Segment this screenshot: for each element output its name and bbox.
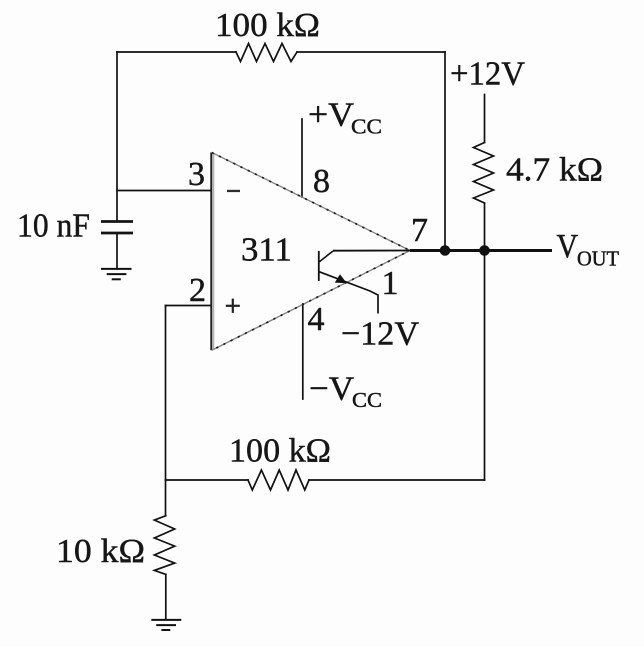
wire: bottom horizontal (right of R3) bbox=[309, 479, 485, 481]
node: junction dot at pull-up/output bbox=[479, 245, 490, 256]
wire: from R2 down to output node bbox=[484, 203, 486, 251]
wire: top horizontal (right of R1) bbox=[297, 51, 445, 53]
ground: under capacitor C1 bbox=[101, 269, 132, 279]
wire: bottom horizontal (left of R3) bbox=[166, 479, 249, 481]
svg-text:−12V: −12V bbox=[341, 316, 419, 353]
wire: right vertical from top wire down to output node bbox=[444, 52, 446, 251]
svg-text:OUT: OUT bbox=[577, 247, 619, 271]
svg-text:1: 1 bbox=[382, 265, 399, 302]
transistor Q1 emitter lead with arrow bbox=[319, 272, 378, 314]
svg-text:8: 8 bbox=[313, 163, 330, 200]
capacitor C1 10 nF plates bbox=[101, 222, 133, 234]
svg-text:2: 2 bbox=[189, 272, 206, 309]
svg-text:V: V bbox=[557, 228, 579, 265]
wire: pin 2 input wire bbox=[166, 305, 212, 307]
svg-text:100 kΩ: 100 kΩ bbox=[215, 7, 320, 44]
wire: pin 4 -Vcc stub bbox=[302, 304, 304, 399]
resistor R4 10 kOhm (vertical) zigzag bbox=[154, 516, 174, 575]
svg-text:4.7 kΩ: 4.7 kΩ bbox=[506, 152, 603, 189]
wire: lower-left vertical from pin2 down to divider node bbox=[165, 306, 167, 516]
svg-text:7: 7 bbox=[411, 212, 428, 249]
resistor R1 100 kOhm (top feedback) zigzag bbox=[236, 44, 297, 62]
wire: output line to Vout (thick) bbox=[410, 249, 552, 252]
svg-text:+12V: +12V bbox=[450, 56, 525, 93]
wire: top-left vertical from feedback corner down to capacitor bbox=[116, 52, 118, 221]
svg-text:+V: +V bbox=[308, 97, 354, 134]
node: junction dot at feedback/output bbox=[440, 245, 451, 256]
wire: top horizontal (left of R1) bbox=[117, 51, 236, 53]
svg-text:−V: −V bbox=[309, 370, 354, 407]
wire: lower-right vertical up to output node bbox=[484, 251, 486, 481]
svg-text:311: 311 bbox=[241, 232, 292, 269]
svg-text:4: 4 bbox=[308, 301, 325, 338]
resistor R3 100 kOhm (bottom feedback) zigzag bbox=[248, 470, 309, 490]
wire: +12V supply stub bbox=[484, 95, 486, 143]
transistor Q1 collector lead bbox=[319, 251, 333, 262]
wire: pin 3 input wire bbox=[117, 190, 211, 192]
wire: capacitor lower lead bbox=[116, 233, 118, 269]
resistor R2 4.7 kOhm (vertical pull-up) zigzag bbox=[474, 143, 494, 204]
ground: under resistor R4 bbox=[151, 620, 181, 630]
svg-text:CC: CC bbox=[352, 388, 382, 412]
op-amp U1 LM311 triangle body bbox=[211, 153, 410, 351]
label: minus input symbol bbox=[227, 190, 240, 192]
wire: from R4 down to ground bbox=[165, 574, 167, 619]
svg-text:3: 3 bbox=[188, 156, 205, 193]
transistor Q1 (311 output stage) base bar bbox=[318, 251, 320, 281]
svg-text:10 kΩ: 10 kΩ bbox=[56, 533, 145, 570]
svg-text:10 nF: 10 nF bbox=[17, 208, 90, 245]
transistor Q1 emitter arrowhead bbox=[335, 274, 347, 283]
svg-text:100 kΩ: 100 kΩ bbox=[229, 433, 331, 470]
svg-text:CC: CC bbox=[351, 114, 382, 138]
label: plus input symbol bbox=[226, 299, 240, 313]
wire: pin 8 +Vcc stub bbox=[301, 119, 303, 197]
wire: collector to pin 7 apex bbox=[333, 250, 412, 252]
